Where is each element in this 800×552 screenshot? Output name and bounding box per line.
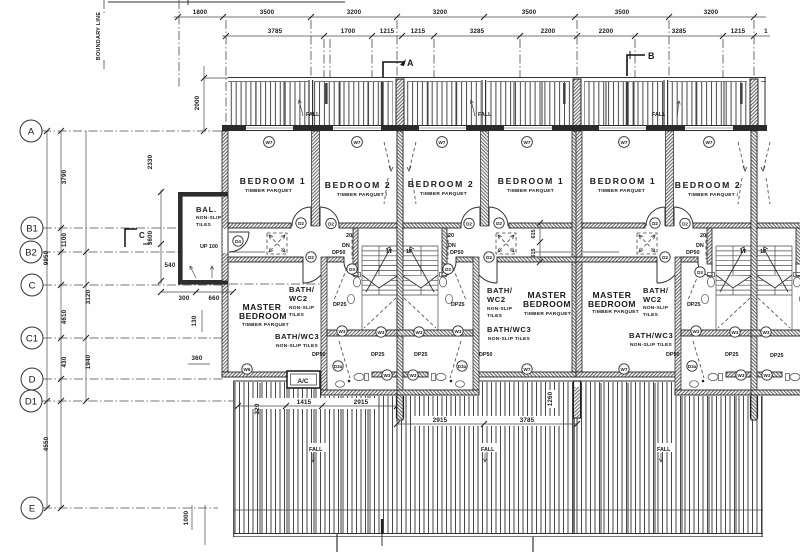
svg-text:W3: W3 bbox=[384, 373, 391, 378]
svg-text:D2: D2 bbox=[466, 221, 472, 226]
svg-text:DP50: DP50 bbox=[686, 250, 700, 256]
svg-text:NON-SLIP TILES: NON-SLIP TILES bbox=[488, 336, 530, 342]
svg-text:W7: W7 bbox=[354, 140, 361, 145]
svg-text:DN: DN bbox=[696, 243, 704, 249]
svg-text:DP25: DP25 bbox=[687, 302, 701, 308]
svg-text:300: 300 bbox=[179, 295, 190, 302]
svg-text:BEDROOM 1: BEDROOM 1 bbox=[498, 176, 564, 186]
svg-text:540: 540 bbox=[165, 262, 176, 269]
svg-text:3600: 3600 bbox=[147, 230, 154, 245]
svg-text:W3: W3 bbox=[763, 330, 770, 335]
svg-text:320: 320 bbox=[254, 403, 261, 414]
svg-text:1215: 1215 bbox=[380, 28, 395, 35]
svg-text:3200: 3200 bbox=[347, 9, 362, 16]
svg-text:1215: 1215 bbox=[731, 28, 746, 35]
svg-text:TIMBER PARQUET: TIMBER PARQUET bbox=[592, 309, 639, 315]
svg-text:DN: DN bbox=[448, 243, 456, 249]
svg-text:BATH/WC3: BATH/WC3 bbox=[629, 331, 673, 340]
svg-text:1415: 1415 bbox=[297, 399, 312, 406]
svg-text:A/C: A/C bbox=[297, 378, 308, 385]
svg-text:3285: 3285 bbox=[470, 28, 485, 35]
svg-text:W3: W3 bbox=[764, 373, 771, 378]
svg-text:D2: D2 bbox=[298, 221, 304, 226]
svg-text:TIMBER PARQUET: TIMBER PARQUET bbox=[507, 188, 554, 194]
svg-text:3500: 3500 bbox=[615, 9, 630, 16]
svg-text:BEDROOM 2: BEDROOM 2 bbox=[325, 180, 391, 190]
svg-text:C: C bbox=[29, 281, 36, 292]
svg-text:TILES: TILES bbox=[643, 312, 659, 318]
svg-text:W7: W7 bbox=[439, 140, 446, 145]
svg-text:BEDROOM: BEDROOM bbox=[239, 311, 287, 321]
svg-text:1215: 1215 bbox=[411, 28, 426, 35]
svg-text:DP25: DP25 bbox=[414, 352, 428, 358]
svg-text:BEDROOM 2: BEDROOM 2 bbox=[408, 179, 474, 189]
svg-text:W7: W7 bbox=[621, 367, 628, 372]
svg-text:3790: 3790 bbox=[61, 169, 68, 184]
svg-text:4610: 4610 bbox=[61, 309, 68, 324]
svg-text:2915: 2915 bbox=[354, 399, 369, 406]
svg-text:W3: W3 bbox=[416, 330, 423, 335]
svg-text:9950: 9950 bbox=[43, 250, 50, 265]
svg-text:D2: D2 bbox=[308, 255, 314, 260]
svg-text:360: 360 bbox=[192, 355, 203, 362]
svg-text:W7: W7 bbox=[266, 140, 273, 145]
svg-text:20: 20 bbox=[448, 233, 454, 239]
svg-text:BAL.: BAL. bbox=[196, 205, 217, 214]
svg-text:D3a: D3a bbox=[334, 364, 343, 369]
svg-text:BEDROOM: BEDROOM bbox=[588, 299, 636, 309]
svg-text:2200: 2200 bbox=[541, 28, 556, 35]
svg-text:W7: W7 bbox=[706, 140, 713, 145]
svg-text:W7: W7 bbox=[524, 140, 531, 145]
svg-text:D2: D2 bbox=[652, 221, 658, 226]
svg-text:NON-SLIP TILES: NON-SLIP TILES bbox=[276, 343, 318, 349]
svg-text:DP25: DP25 bbox=[371, 352, 385, 358]
svg-text:WC2: WC2 bbox=[487, 295, 506, 304]
svg-text:TIMBER PARQUET: TIMBER PARQUET bbox=[598, 188, 645, 194]
svg-text:W6: W6 bbox=[244, 367, 251, 372]
svg-text:UP 100: UP 100 bbox=[200, 244, 218, 250]
svg-text:BATH/WC3: BATH/WC3 bbox=[487, 325, 531, 334]
svg-text:D2: D2 bbox=[662, 255, 668, 260]
svg-text:BEDROOM: BEDROOM bbox=[523, 299, 571, 309]
svg-text:DP50: DP50 bbox=[666, 352, 680, 358]
svg-text:D3a: D3a bbox=[688, 364, 697, 369]
svg-text:TILES: TILES bbox=[196, 222, 212, 228]
svg-text:W3: W3 bbox=[732, 330, 739, 335]
svg-text:BOUNDARY LINE: BOUNDARY LINE bbox=[96, 12, 102, 61]
svg-text:3200: 3200 bbox=[433, 9, 448, 16]
svg-text:E: E bbox=[29, 504, 35, 515]
svg-text:17: 17 bbox=[406, 249, 412, 255]
svg-text:NON-SLIP: NON-SLIP bbox=[643, 305, 669, 311]
svg-text:1700: 1700 bbox=[341, 28, 356, 35]
svg-text:1000: 1000 bbox=[183, 510, 190, 525]
svg-text:W7: W7 bbox=[621, 140, 628, 145]
svg-text:W3: W3 bbox=[339, 329, 346, 334]
svg-text:C: C bbox=[139, 231, 145, 240]
svg-text:1800: 1800 bbox=[193, 9, 208, 16]
svg-text:17: 17 bbox=[386, 249, 392, 255]
svg-text:1940: 1940 bbox=[85, 354, 92, 369]
svg-text:1100: 1100 bbox=[61, 233, 68, 248]
svg-text:TIMBER PARQUET /: TIMBER PARQUET / bbox=[337, 192, 388, 198]
svg-text:BATH/: BATH/ bbox=[643, 286, 669, 295]
svg-text:DP50: DP50 bbox=[450, 250, 464, 256]
svg-text:DP25: DP25 bbox=[770, 353, 784, 359]
svg-text:2200: 2200 bbox=[599, 28, 614, 35]
svg-text:B1: B1 bbox=[26, 224, 38, 235]
svg-text:TILES: TILES bbox=[487, 313, 503, 319]
svg-text:D2: D2 bbox=[496, 221, 502, 226]
svg-text:BEDROOM 2: BEDROOM 2 bbox=[675, 180, 741, 190]
svg-text:D3: D3 bbox=[349, 267, 355, 272]
svg-text:A: A bbox=[28, 127, 35, 138]
svg-text:130: 130 bbox=[191, 315, 198, 326]
svg-text:2000: 2000 bbox=[194, 95, 201, 110]
svg-text:D: D bbox=[29, 375, 36, 386]
svg-text:20: 20 bbox=[700, 233, 706, 239]
svg-text:DP25: DP25 bbox=[333, 302, 347, 308]
svg-text:BATH/: BATH/ bbox=[487, 286, 513, 295]
svg-text:TIMBER PARQUET: TIMBER PARQUET bbox=[524, 311, 571, 317]
svg-text:FALL: FALL bbox=[309, 447, 323, 453]
svg-text:2915: 2915 bbox=[433, 417, 448, 424]
svg-text:TIMBER PARQUET: TIMBER PARQUET bbox=[245, 188, 292, 194]
svg-text:BEDROOM 1: BEDROOM 1 bbox=[590, 176, 656, 186]
svg-text:WC2: WC2 bbox=[643, 295, 662, 304]
svg-text:C1: C1 bbox=[26, 334, 38, 345]
svg-text:3500: 3500 bbox=[522, 9, 537, 16]
svg-text:D3: D3 bbox=[445, 267, 451, 272]
svg-text:FALL: FALL bbox=[652, 112, 666, 118]
svg-text:FALL: FALL bbox=[478, 112, 492, 118]
svg-text:DP25: DP25 bbox=[725, 352, 739, 358]
svg-text:D2: D2 bbox=[682, 221, 688, 226]
svg-text:BEDROOM 1: BEDROOM 1 bbox=[240, 176, 306, 186]
svg-text:NON-SLIP: NON-SLIP bbox=[487, 306, 513, 312]
svg-text:W3: W3 bbox=[378, 330, 385, 335]
svg-text:BATH/WC3: BATH/WC3 bbox=[275, 332, 319, 341]
svg-text:3785: 3785 bbox=[268, 28, 283, 35]
svg-text:3200: 3200 bbox=[704, 9, 719, 16]
svg-text:D3: D3 bbox=[697, 270, 703, 275]
svg-text:3500: 3500 bbox=[260, 9, 275, 16]
svg-text:NON-SLIP: NON-SLIP bbox=[289, 305, 315, 311]
svg-text:WC2: WC2 bbox=[289, 294, 308, 303]
svg-text:20: 20 bbox=[346, 233, 352, 239]
svg-text:TIMBER PARQUET /: TIMBER PARQUET / bbox=[688, 192, 739, 198]
svg-text:BATH/: BATH/ bbox=[289, 285, 315, 294]
svg-text:4550: 4550 bbox=[43, 436, 50, 451]
svg-text:D1: D1 bbox=[25, 397, 37, 408]
svg-text:A: A bbox=[407, 58, 414, 68]
svg-text:W3: W3 bbox=[410, 373, 417, 378]
svg-text:W3: W3 bbox=[738, 373, 745, 378]
svg-text:DP50: DP50 bbox=[312, 352, 326, 358]
svg-text:2330: 2330 bbox=[147, 154, 154, 169]
svg-text:D2: D2 bbox=[486, 255, 492, 260]
svg-text:D2: D2 bbox=[328, 221, 334, 226]
svg-text:DP50: DP50 bbox=[332, 250, 346, 256]
svg-text:TIMBER PARQUET: TIMBER PARQUET bbox=[420, 191, 467, 197]
svg-text:TILES: TILES bbox=[289, 312, 305, 318]
svg-text:615: 615 bbox=[531, 230, 537, 239]
svg-text:17: 17 bbox=[740, 249, 746, 255]
svg-text:W3: W3 bbox=[693, 329, 700, 334]
svg-text:NON-SLIP: NON-SLIP bbox=[196, 215, 222, 221]
svg-text:D4: D4 bbox=[235, 239, 241, 244]
svg-text:FALL: FALL bbox=[657, 447, 671, 453]
svg-text:3785: 3785 bbox=[520, 417, 535, 424]
svg-text:FALL: FALL bbox=[306, 112, 320, 118]
svg-text:DP50: DP50 bbox=[479, 352, 493, 358]
svg-text:W3: W3 bbox=[455, 329, 462, 334]
svg-text:B2: B2 bbox=[25, 248, 37, 259]
svg-text:615: 615 bbox=[531, 249, 537, 258]
svg-text:FALL: FALL bbox=[481, 447, 495, 453]
svg-text:DN: DN bbox=[342, 243, 350, 249]
svg-text:3120: 3120 bbox=[85, 289, 92, 304]
svg-text:430: 430 bbox=[61, 356, 68, 367]
svg-text:TIMBER PARQUET: TIMBER PARQUET bbox=[242, 322, 289, 328]
svg-text:660: 660 bbox=[209, 295, 220, 302]
svg-text:DP25: DP25 bbox=[451, 302, 465, 308]
svg-text:1260: 1260 bbox=[547, 391, 554, 406]
svg-text:B: B bbox=[648, 51, 655, 61]
svg-text:1: 1 bbox=[764, 28, 768, 35]
svg-text:3285: 3285 bbox=[672, 28, 687, 35]
svg-text:NON-SLIP TILES: NON-SLIP TILES bbox=[630, 342, 672, 348]
svg-text:D3a: D3a bbox=[458, 364, 467, 369]
svg-text:W7: W7 bbox=[524, 367, 531, 372]
svg-text:17: 17 bbox=[760, 249, 766, 255]
